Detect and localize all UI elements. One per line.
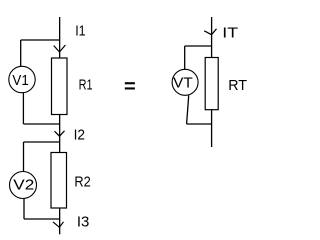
voltmeter V1 (9, 66, 35, 92)
wire (59, 17, 61, 58)
resistor RT (205, 58, 218, 110)
wire (187, 123, 212, 125)
arrowhead I3 (53, 222, 64, 228)
wire (59, 208, 61, 234)
wire (21, 39, 60, 41)
wire (59, 115, 61, 153)
wire (184, 46, 186, 69)
svg-text:V1: V1 (12, 72, 28, 89)
svg-text:V2: V2 (13, 176, 34, 193)
wire (185, 45, 212, 47)
wire (187, 96, 189, 124)
wire (23, 123, 59, 125)
resistor R2 (51, 153, 67, 209)
svg-text:VT: VT (173, 75, 193, 92)
svg-text:RT: RT (228, 77, 247, 94)
arrowhead I1 (54, 45, 66, 52)
svg-text:I1: I1 (75, 22, 85, 39)
wire (24, 141, 60, 143)
wire (23, 199, 25, 219)
svg-text:R1: R1 (79, 76, 93, 93)
equals sign (125, 82, 135, 89)
resistor R1 (52, 58, 68, 115)
wire (211, 110, 213, 147)
svg-text:IT: IT (222, 25, 238, 42)
arrowhead I2 (55, 131, 65, 136)
arrowhead IT (204, 29, 216, 35)
svg-text:R2: R2 (74, 174, 90, 191)
wire (20, 40, 22, 67)
voltmeter VT (172, 69, 198, 95)
wire (211, 17, 213, 58)
voltmeter V2 (10, 172, 37, 199)
wire (24, 218, 60, 220)
svg-text:I2: I2 (74, 126, 85, 143)
svg-text:I3: I3 (77, 213, 90, 230)
wire (23, 142, 25, 172)
wire (22, 93, 24, 124)
